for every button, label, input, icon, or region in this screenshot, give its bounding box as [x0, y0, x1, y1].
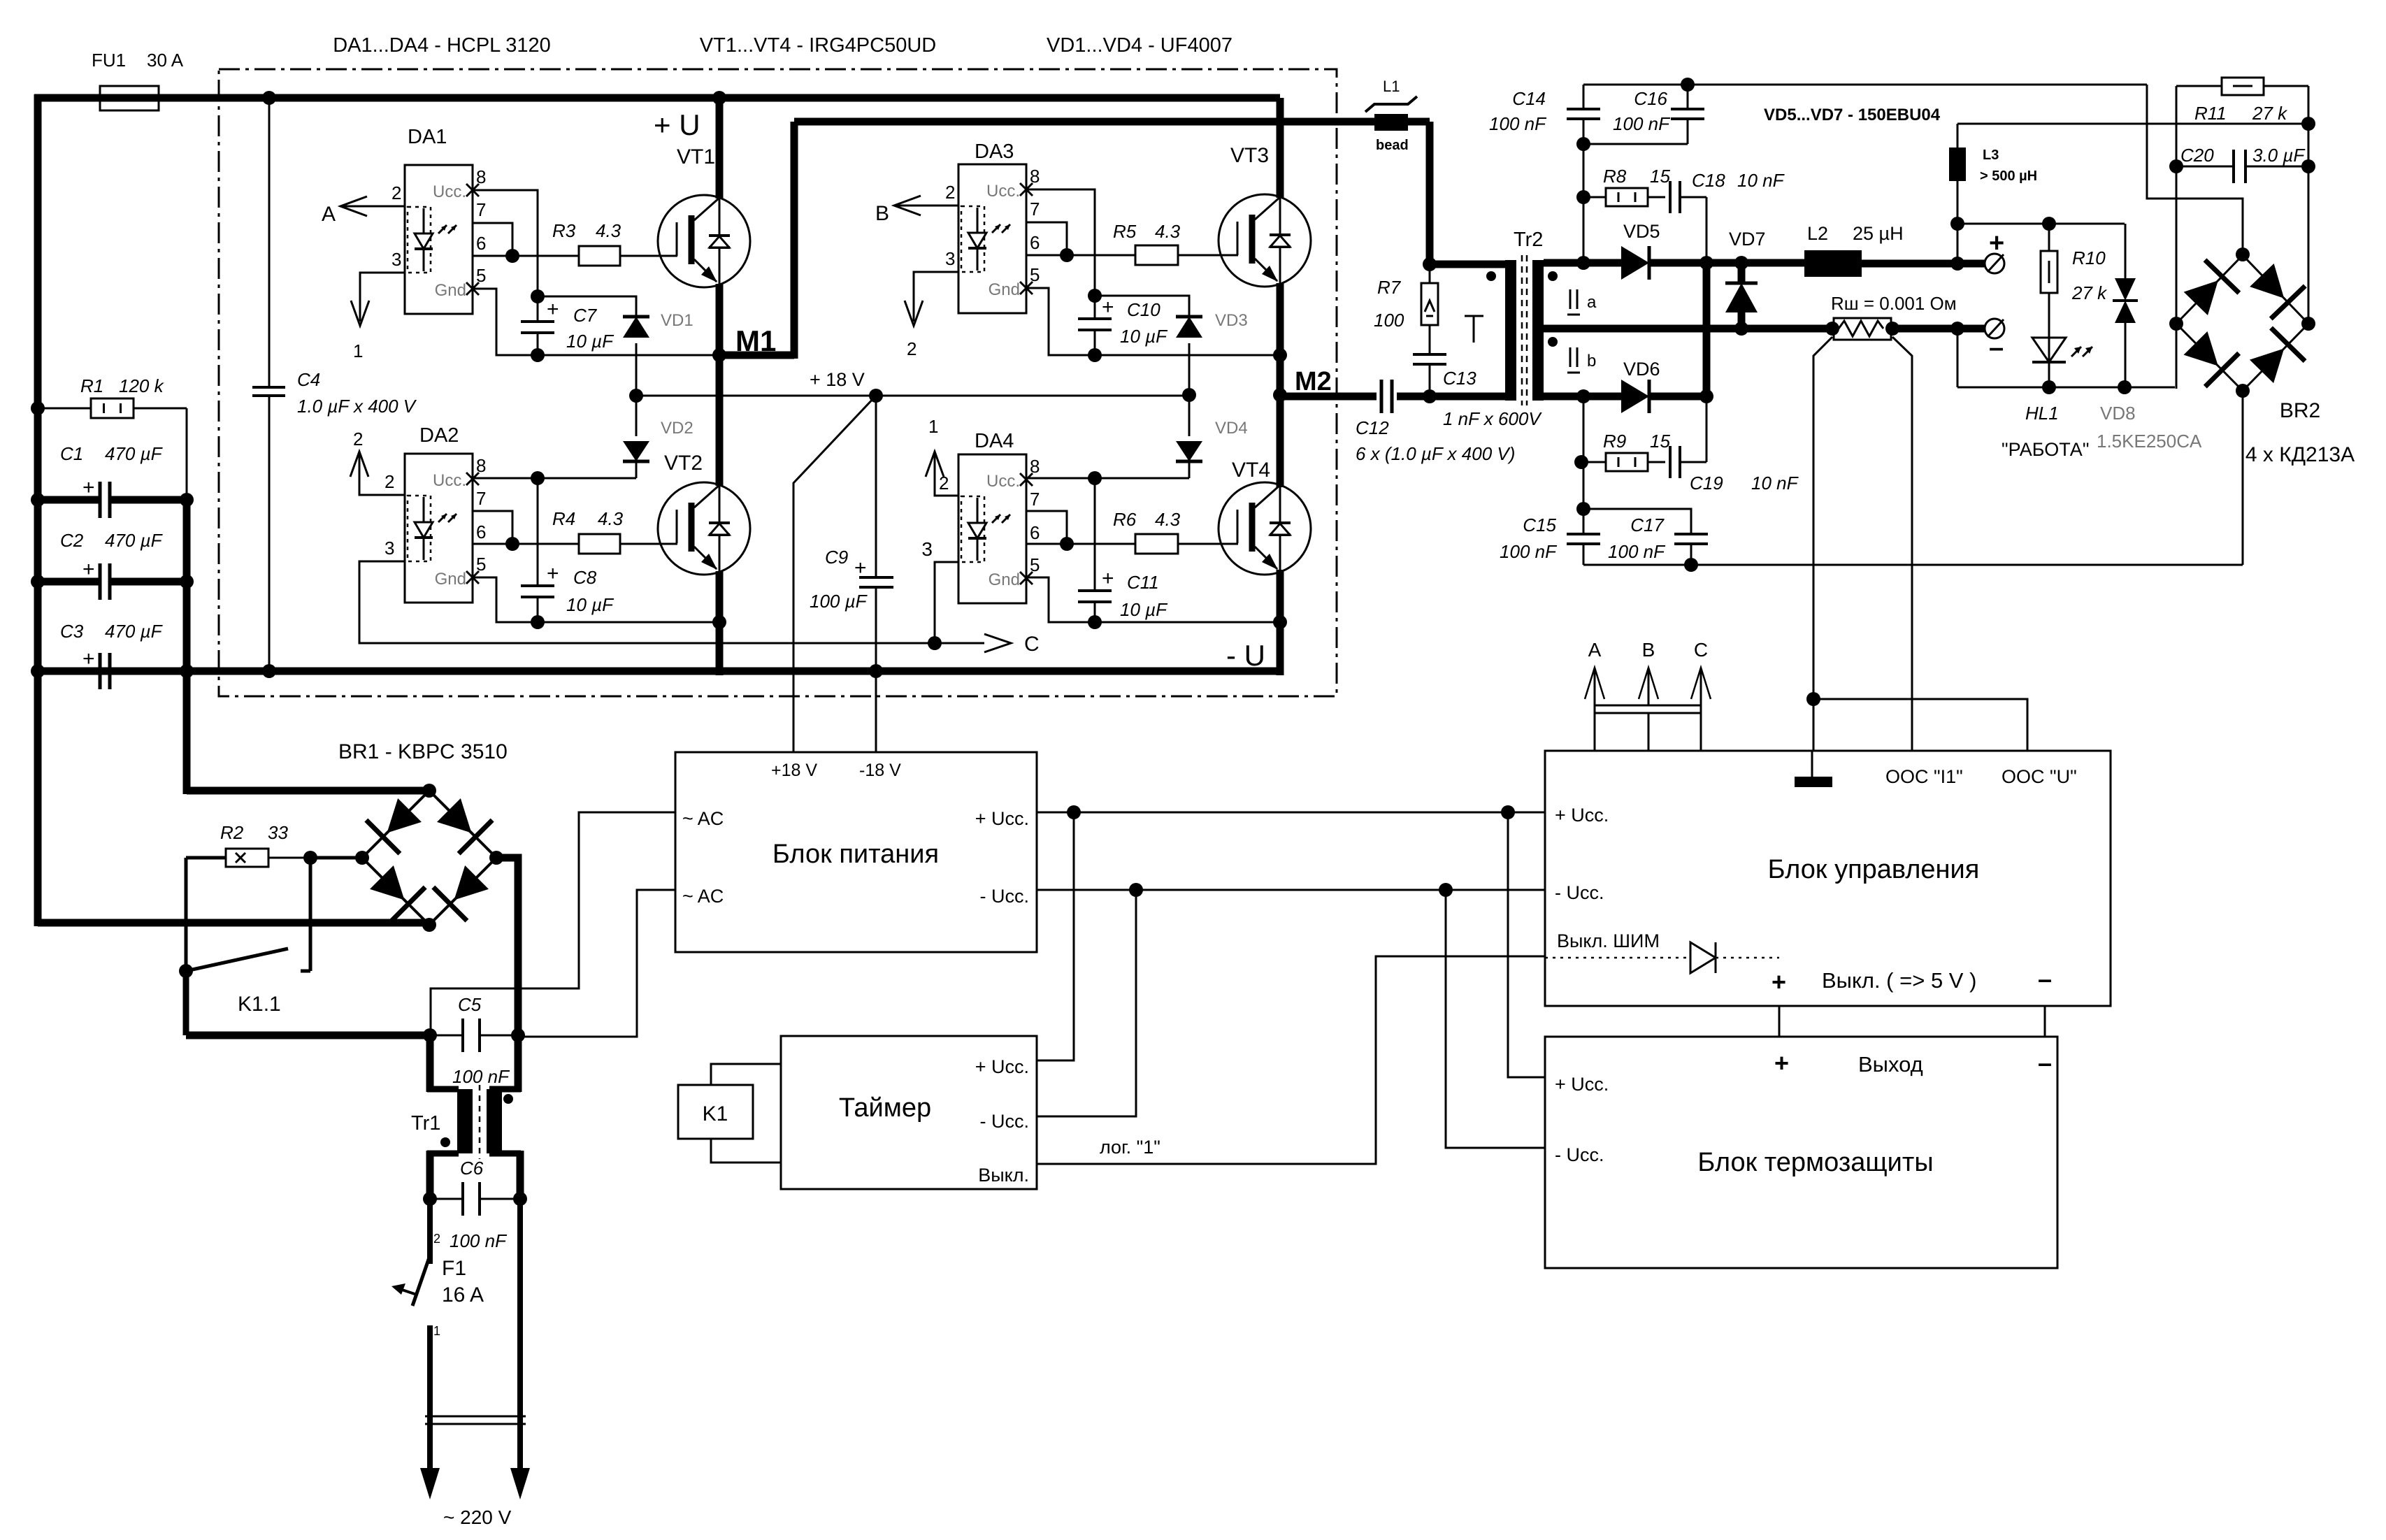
svg-text:-18 V: -18 V — [859, 761, 901, 780]
svg-text:C7: C7 — [573, 305, 598, 326]
wire shunt left sense line — [1813, 337, 1832, 751]
svg-text:8: 8 — [476, 455, 486, 476]
Tr2 primary single-turn mark — [1465, 315, 1483, 317]
node L3 bottom — [1950, 217, 1964, 231]
capacitor C13 — [1413, 353, 1446, 356]
wire cap column to BR1 top — [187, 787, 429, 795]
node VT3 emitter row — [1273, 348, 1287, 362]
svg-text:a: a — [1587, 293, 1597, 312]
wire BR2 left down to HL1 rail — [2176, 324, 2178, 389]
node C14/C16 join — [1576, 137, 1590, 151]
svg-text:VD1...VD4 - UF4007: VD1...VD4 - UF4007 — [1047, 34, 1232, 57]
wire AC2 from power block to C5 right — [521, 890, 675, 1037]
wire DA3 pin3 down arrow — [914, 272, 958, 322]
wire +18V riser diagonal from power block — [793, 396, 876, 752]
transistor VT1 (IGBT) — [658, 195, 750, 287]
svg-text:VD2: VD2 — [661, 419, 693, 438]
node BR2 right — [2301, 317, 2315, 331]
node BR2 left — [2169, 317, 2183, 331]
svg-text:VD5...VD7 - 150EBU04: VD5...VD7 - 150EBU04 — [1764, 106, 1941, 124]
wire DA3 pin6 to gate resistor — [1026, 254, 1135, 257]
block timer (Taymer) — [781, 1036, 1037, 1189]
capacitor C19 — [1648, 461, 1665, 463]
wire timer Vykl to control PWM off — [1037, 956, 1545, 1164]
svg-text:1: 1 — [353, 340, 363, 361]
arrow mains right — [510, 1468, 530, 1499]
node plus terminal branch — [1950, 257, 1964, 271]
wire BR1 right to C5 right — [496, 858, 518, 1035]
node +Ucc timer branch — [1067, 805, 1081, 819]
wire top snubber rail — [1583, 84, 2147, 86]
wire thermal +Ucc riser — [1508, 812, 1545, 1077]
wire DA2 pin2 up arrow — [359, 454, 405, 495]
svg-text:Выход: Выход — [1858, 1052, 1923, 1077]
svg-text:C20: C20 — [2180, 145, 2214, 166]
svg-text:C10: C10 — [1127, 299, 1160, 320]
wire Tr2 secondary top — [1544, 259, 1622, 267]
svg-text:Rш = 0.001 Ом: Rш = 0.001 Ом — [1831, 293, 1957, 314]
wire shunt right sense line — [1892, 337, 1912, 751]
svg-text:bead: bead — [1376, 138, 1409, 153]
dash-dot inverter module frame — [219, 69, 1337, 696]
node right rail y177 — [2301, 117, 2315, 131]
svg-text:> 500 µH: > 500 µH — [1980, 168, 2037, 184]
svg-text:FU1: FU1 — [92, 50, 126, 71]
capacitor C2 — [31, 575, 45, 589]
wire DA2 pin3 to C line — [359, 561, 935, 643]
svg-text:2: 2 — [391, 182, 401, 203]
node top rail C16 — [1681, 78, 1695, 92]
wire VT4 emitter to -U — [1277, 570, 1284, 675]
svg-text:Выкл.: Выкл. — [978, 1165, 1029, 1186]
node +18V rail end — [1182, 388, 1196, 402]
svg-text:R5: R5 — [1113, 221, 1137, 242]
node top bus / C4 branch — [262, 91, 276, 105]
node OOC U tap on sense line — [1806, 692, 1820, 706]
wire VT3-VT4 bus with M2 — [1277, 283, 1284, 487]
resistor R3 — [579, 246, 620, 266]
resistor R6 — [1135, 534, 1178, 554]
svg-text:VD5: VD5 — [1623, 221, 1660, 242]
svg-text:C15: C15 — [1523, 514, 1556, 535]
wire DA4 pin5 Gnd to emitter row — [1026, 577, 1095, 622]
svg-text:+: + — [547, 298, 559, 321]
svg-text:470 µF: 470 µF — [105, 530, 164, 551]
svg-text:30 A: 30 A — [147, 50, 184, 71]
svg-text:25 µH: 25 µH — [1853, 223, 1904, 244]
svg-text:R4: R4 — [552, 508, 575, 529]
node BR2 top — [2236, 247, 2250, 261]
svg-text:B: B — [1642, 639, 1655, 661]
svg-text:10 µF: 10 µF — [566, 331, 615, 352]
wire DA3 pin5 Gnd down — [1026, 288, 1095, 355]
wire timer -Ucc riser — [1037, 890, 1136, 1116]
fuse FU1 — [100, 86, 159, 110]
capacitor C10 (10uF) — [1088, 289, 1102, 303]
wire VT4 emitter row — [1095, 621, 1280, 624]
resistor R2 — [310, 856, 362, 860]
svg-text:2: 2 — [353, 429, 363, 449]
svg-text:+: + — [1989, 229, 2004, 258]
capacitor C14 — [1583, 85, 1585, 109]
node -Ucc timer branch — [1129, 883, 1143, 897]
svg-text:+: + — [1102, 567, 1114, 590]
svg-text:5: 5 — [476, 554, 486, 575]
phase bus-bar lines — [1595, 705, 1701, 707]
svg-text:2: 2 — [939, 473, 949, 494]
svg-text:+: + — [1102, 296, 1114, 319]
svg-text:A: A — [1588, 639, 1602, 661]
svg-text:Gnd: Gnd — [989, 570, 1020, 589]
svg-text:C3: C3 — [60, 621, 84, 642]
svg-text:L1: L1 — [1383, 78, 1400, 95]
svg-text:- Ucc.: - Ucc. — [1555, 1144, 1604, 1165]
wire K1 top to timer — [711, 1064, 781, 1085]
svg-text:A: A — [322, 203, 336, 226]
wire C19 up to VD6 cathode node — [1706, 396, 1708, 462]
resistor R4 — [579, 534, 620, 554]
svg-text:Gnd: Gnd — [989, 280, 1020, 299]
svg-text:8: 8 — [1030, 456, 1040, 477]
wire C7 top to VD1 — [538, 296, 636, 315]
svg-text:470 µF: 470 µF — [105, 443, 164, 464]
wire L2 to plus terminal — [1862, 260, 1985, 268]
node BR1 left — [355, 851, 369, 865]
capacitor C11 (10uF) — [1088, 615, 1102, 629]
diode VD1 — [623, 317, 649, 338]
node VD7 bottom — [1734, 322, 1748, 336]
wire +Ucc bus — [1037, 812, 1545, 814]
wire DA3 pin8 Ucc to C10 top — [1026, 189, 1095, 296]
wire DA1 pin7 to pin6 node — [473, 223, 512, 256]
svg-text:3: 3 — [385, 538, 394, 559]
capacitor C18 — [1648, 196, 1665, 199]
svg-text:100 nF: 100 nF — [452, 1066, 510, 1087]
svg-text:VD3: VD3 — [1215, 311, 1248, 330]
wire Tr2 secondary bottom — [1544, 393, 1622, 401]
wire top rail to BR2 top — [2147, 85, 2243, 254]
resistor R1 — [31, 401, 45, 415]
wire top +U bus horizontal — [34, 94, 1280, 102]
wire VT1-VT2 bus with M1 — [716, 284, 724, 486]
svg-text:10 nF: 10 nF — [1751, 473, 1799, 494]
svg-text:R2: R2 — [220, 822, 244, 843]
svg-text:BR1 - KBPC 3510: BR1 - KBPC 3510 — [338, 740, 508, 763]
bridge rectifier BR2 — [2176, 255, 2243, 324]
node +18V / VD1-VD2 — [629, 389, 643, 403]
svg-text:4.3: 4.3 — [1155, 509, 1181, 530]
svg-text:3: 3 — [945, 248, 955, 269]
svg-text:2: 2 — [945, 182, 955, 203]
block thermal protection (Blok termozashchity) — [1545, 1037, 2057, 1268]
svg-text:C19: C19 — [1690, 473, 1723, 494]
svg-text:~ 220 V: ~ 220 V — [443, 1506, 512, 1528]
wire K1 bottom to timer — [711, 1139, 781, 1163]
svg-text:R11: R11 — [2194, 103, 2227, 124]
svg-text:ООС "I1": ООС "I1" — [1885, 766, 1963, 787]
svg-text:Выкл. ШИМ: Выкл. ШИМ — [1557, 930, 1660, 951]
svg-text:C8: C8 — [573, 567, 597, 588]
wire control out+ to thermal — [1778, 1006, 1781, 1037]
svg-text:Выкл. ( => 5 V ): Выкл. ( => 5 V ) — [1822, 968, 1976, 993]
svg-text:C18: C18 — [1692, 170, 1725, 191]
inductor L3 — [1957, 124, 1959, 147]
node BR1 top — [422, 784, 436, 798]
wire negative column x267 — [183, 496, 191, 794]
svg-text:15: 15 — [1650, 431, 1670, 452]
mains separator lines — [425, 1416, 526, 1418]
resistor R11 — [2176, 85, 2222, 87]
svg-text:R8: R8 — [1603, 166, 1627, 187]
op-amp DA2 (optodriver) — [405, 454, 473, 603]
svg-text:Таймер: Таймер — [839, 1093, 931, 1123]
svg-text:3.0 µF: 3.0 µF — [2252, 145, 2306, 166]
svg-text:3: 3 — [391, 249, 401, 270]
shunt resistor Rsh — [1834, 318, 1891, 340]
svg-text:2: 2 — [907, 338, 917, 359]
svg-text:6: 6 — [1030, 232, 1040, 253]
svg-text:100 nF: 100 nF — [1613, 113, 1671, 134]
node shunt left — [1825, 322, 1839, 336]
wire M1 to riser — [719, 352, 794, 359]
Tr2 winding b mark — [1569, 347, 1572, 367]
svg-text:C12: C12 — [1356, 417, 1389, 438]
node -Ucc thermal branch — [1439, 883, 1453, 897]
svg-text:3: 3 — [921, 538, 933, 560]
node top bus / VT1 collector — [712, 91, 726, 105]
wire VT1 collector — [716, 98, 724, 199]
svg-text:VT1...VT4 - IRG4PC50UD: VT1...VT4 - IRG4PC50UD — [700, 34, 936, 57]
arrow mains left — [420, 1468, 440, 1499]
wire M1 row — [538, 354, 719, 357]
wire bottom snubber rail to BR2 bottom — [1583, 564, 2243, 566]
node R9 branch — [1574, 455, 1588, 469]
svg-text:VT2: VT2 — [664, 452, 703, 475]
wire M2 to Tr2 primary bottom — [1430, 393, 1505, 401]
node VD6 cathode — [1699, 389, 1713, 403]
svg-text:VD1: VD1 — [661, 311, 693, 330]
svg-text:DA1: DA1 — [408, 126, 447, 148]
resistor R10 — [2048, 224, 2050, 251]
wire plus rail top link — [1957, 123, 2308, 125]
arrow C output — [935, 642, 984, 645]
wire VT2 emitter row — [538, 621, 719, 624]
svg-text:100 nF: 100 nF — [1608, 541, 1666, 562]
svg-text:+18 V: +18 V — [771, 761, 817, 780]
svg-text:Gnd: Gnd — [435, 570, 466, 589]
svg-text:B: B — [875, 202, 889, 225]
shunt wire from center tap — [1741, 325, 1832, 333]
svg-text:C: C — [1694, 639, 1708, 661]
svg-text:Ucc.: Ucc. — [433, 182, 466, 201]
capacitor C17 — [1583, 509, 1691, 534]
op-amp DA4 (optodriver) — [958, 454, 1026, 603]
svg-text:8: 8 — [476, 166, 486, 187]
wire DA2 pin6 to gate resistor — [473, 543, 579, 545]
svg-text:100 nF: 100 nF — [1500, 541, 1558, 562]
node C9 to -18V on -U bus — [869, 664, 883, 678]
svg-text:R1: R1 — [80, 375, 103, 396]
node C13 bottom on M2 line — [1423, 389, 1437, 403]
wire VT2 emitter to -U — [716, 571, 724, 675]
svg-text:- U: - U — [1226, 639, 1265, 672]
svg-text:16 A: 16 A — [442, 1283, 484, 1307]
svg-text:ООС "U": ООС "U" — [2001, 766, 2077, 787]
bridge rectifier BR1 — [362, 791, 429, 858]
svg-text:100 nF: 100 nF — [450, 1230, 508, 1251]
wire timer +Ucc riser — [1037, 812, 1074, 1060]
minus output terminal — [1985, 319, 2004, 338]
svg-text:4 х КД213А: 4 х КД213А — [2245, 443, 2355, 466]
wire +18V rail — [636, 395, 1189, 397]
switch K1.1 — [185, 858, 188, 971]
svg-text:1: 1 — [433, 1324, 440, 1338]
capacitor C1 — [31, 493, 45, 507]
svg-text:5: 5 — [1030, 554, 1040, 575]
wire R11 left rail — [2176, 86, 2178, 389]
svg-text:K1.1: K1.1 — [238, 993, 281, 1016]
svg-text:6 x (1.0 µF x 400 V): 6 x (1.0 µF x 400 V) — [1356, 443, 1515, 464]
wire R11 right rail — [2308, 86, 2310, 324]
svg-text:10 µF: 10 µF — [1120, 326, 1168, 347]
svg-text:L2: L2 — [1807, 223, 1828, 244]
svg-text:5: 5 — [1030, 264, 1040, 285]
resistor R5 — [1135, 245, 1178, 265]
svg-text:VT4: VT4 — [1232, 459, 1270, 482]
svg-text:Ucc.: Ucc. — [986, 182, 1020, 201]
node BR1 bottom — [422, 918, 436, 932]
wire DA4 pin8 Ucc row to VD4 — [1026, 477, 1189, 480]
wire DA2 pin5 Gnd to emitter row — [473, 577, 538, 622]
wire VD6 cathode up to plus rail — [1703, 263, 1711, 396]
svg-text:C2: C2 — [60, 530, 84, 551]
svg-text:DA2: DA2 — [419, 424, 459, 447]
svg-text:Tr2: Tr2 — [1514, 229, 1543, 251]
svg-text:+ U: + U — [654, 108, 700, 141]
svg-text:DA4: DA4 — [975, 430, 1014, 452]
svg-text:4.3: 4.3 — [1155, 221, 1181, 242]
wire control out- to thermal — [2044, 1006, 2046, 1037]
svg-text:C14: C14 — [1512, 88, 1546, 109]
Tr2 primary phase dot — [1486, 271, 1496, 281]
svg-text:+ Ucc.: + Ucc. — [1555, 805, 1609, 826]
diode VD5 — [1621, 246, 1649, 280]
LED HL1 — [2048, 338, 2050, 362]
node minus terminal branch — [1950, 322, 1964, 336]
resistor R9 — [1581, 461, 1606, 463]
capacitor C15 — [1583, 509, 1585, 534]
svg-text:Ucc.: Ucc. — [986, 472, 1020, 491]
node BR2 bottom — [2236, 384, 2250, 398]
wire -Ucc bus — [1037, 889, 1545, 891]
svg-text:Блок управления: Блок управления — [1768, 855, 1980, 884]
svg-text:~ AC: ~ AC — [682, 886, 724, 907]
wire DA1 pin3 down arrow pin1 — [360, 273, 405, 322]
svg-text:10 µF: 10 µF — [566, 594, 615, 615]
wire left DC bus vertical — [34, 94, 42, 926]
diode VD3 — [1176, 317, 1202, 338]
svg-text:+ Ucc.: + Ucc. — [975, 1056, 1029, 1077]
wire DA3 gnd row to bus — [1095, 354, 1280, 357]
node +18V feed — [869, 389, 883, 403]
svg-text:27 k: 27 k — [2252, 103, 2288, 124]
node Tr2 primary top / R7 — [1423, 257, 1437, 271]
svg-text:"РАБОТА": "РАБОТА" — [2001, 439, 2089, 460]
svg-text:Блок питания: Блок питания — [772, 840, 939, 869]
wire bead to Tr2 primary top — [1408, 118, 1430, 126]
block control (Blok upravleniya) — [1545, 751, 2111, 1006]
node VD8 bottom — [2118, 380, 2132, 394]
svg-text:VD7: VD7 — [1729, 229, 1766, 250]
svg-text:–: – — [2038, 965, 2052, 993]
svg-text:1.5KE250CA: 1.5KE250CA — [2097, 431, 2202, 452]
wire AC1 from power block to C5 left — [431, 812, 675, 1035]
resistor R7 (varistor-marked) — [1429, 264, 1431, 283]
capacitor C12 in M2 line — [1280, 393, 1377, 401]
wire DA4 pin7 to pin6 — [1026, 511, 1067, 544]
svg-text:+: + — [547, 562, 559, 585]
svg-text:7: 7 — [476, 488, 486, 509]
transformer Tr1 — [426, 1035, 434, 1092]
svg-text:VD8: VD8 — [2100, 403, 2136, 424]
svg-text:DA3: DA3 — [975, 141, 1014, 163]
svg-text:+ Ucc.: + Ucc. — [1555, 1074, 1609, 1095]
svg-text:4.3: 4.3 — [598, 508, 624, 529]
dotted PWM-off line with diode — [1545, 957, 1690, 959]
wire shunt to minus terminal — [1892, 325, 1985, 333]
svg-text:Tr1: Tr1 — [411, 1112, 440, 1135]
svg-text:C1: C1 — [60, 443, 83, 464]
svg-text:R9: R9 — [1603, 431, 1626, 452]
block power supply (Blok pitaniya) — [675, 752, 1037, 952]
svg-text:C4: C4 — [297, 369, 320, 390]
svg-text:10 nF: 10 nF — [1737, 170, 1785, 191]
svg-text:C: C — [1024, 633, 1040, 656]
svg-text:+: + — [1771, 967, 1786, 996]
resistor R8 — [1583, 196, 1606, 199]
wire DA4 pin6 to gate resistor — [1026, 543, 1135, 545]
wire bottom HL1 rail — [1957, 387, 2175, 389]
svg-text:15: 15 — [1650, 166, 1670, 187]
svg-text:1: 1 — [928, 416, 938, 437]
wire OOC U to control block — [1813, 699, 2027, 751]
wire VT3 collector — [1277, 98, 1284, 198]
capacitor C5 — [423, 1028, 437, 1042]
plus output terminal — [1985, 254, 2004, 273]
diode VD7 freewheel — [1738, 263, 1746, 283]
wire DA1 pin6 to gate resistor — [473, 255, 579, 257]
capacitor C6 — [423, 1192, 437, 1206]
diode VD4 — [1188, 395, 1191, 436]
svg-text:R3: R3 — [552, 220, 576, 241]
wire minus branch down — [1957, 329, 1959, 387]
wire DA3 pin2 to node B arrow — [896, 205, 958, 207]
svg-text:+: + — [1774, 1049, 1789, 1077]
node R10 top — [2042, 217, 2056, 231]
svg-text:120 k: 120 k — [119, 375, 165, 396]
svg-text:+: + — [82, 558, 95, 581]
wire C10 top to VD3 — [1095, 296, 1189, 315]
wire DA4 pin3 to C node — [935, 562, 958, 643]
zener VD8 (TVS) — [2125, 224, 2127, 278]
node M1 — [712, 348, 726, 362]
svg-text:1.0 µF x 400 V: 1.0 µF x 400 V — [297, 396, 417, 417]
op-amp DA1 (optodriver) — [405, 165, 473, 314]
diode VD6 — [1621, 380, 1649, 413]
wire K1.1 to C5 left — [183, 971, 189, 1035]
capacitor C16 — [1687, 85, 1689, 109]
svg-text:+: + — [82, 647, 95, 670]
